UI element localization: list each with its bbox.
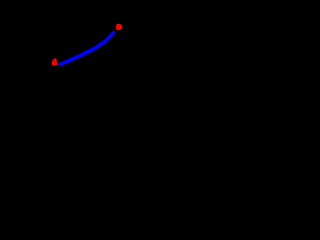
wire: [59, 32, 115, 65]
node A: [52, 59, 57, 66]
node A antialias dot: [57, 64, 58, 65]
node B antialias dot: [116, 30, 117, 31]
node B: [116, 24, 122, 30]
